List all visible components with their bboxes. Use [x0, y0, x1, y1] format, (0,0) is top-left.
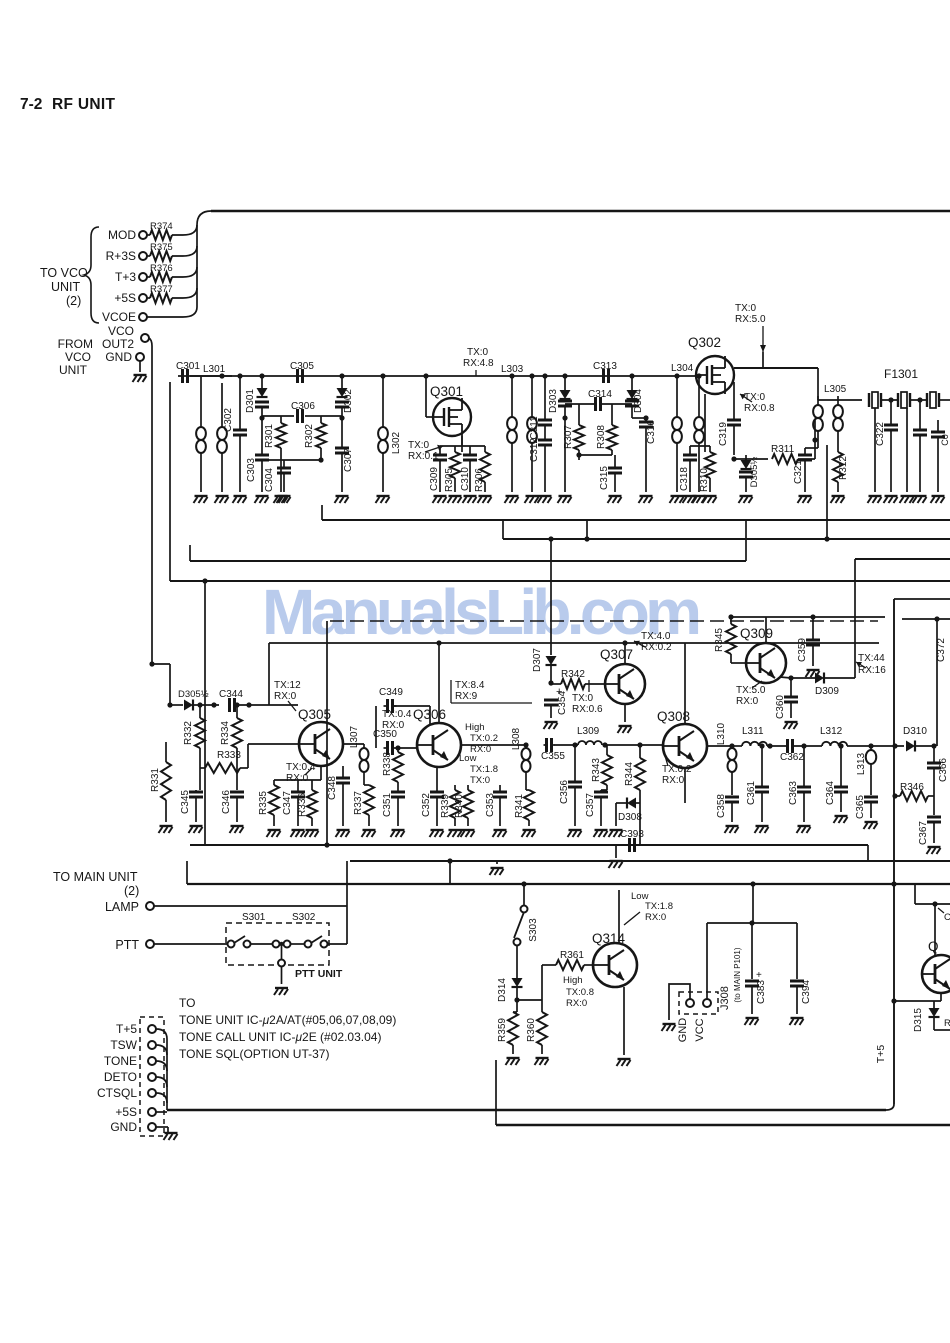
svg-text:OUT2: OUT2: [102, 337, 134, 351]
svg-text:C354: C354: [557, 691, 568, 715]
svg-text:C313: C313: [593, 361, 617, 372]
svg-text:Q301: Q301: [430, 384, 463, 399]
svg-text:R345: R345: [714, 628, 725, 652]
svg-text:C319: C319: [718, 422, 729, 446]
svg-text:R339: R339: [440, 794, 451, 818]
svg-text:TO MAIN UNIT: TO MAIN UNIT: [53, 870, 138, 884]
svg-text:C394: C394: [801, 980, 812, 1004]
svg-text:C366: C366: [938, 758, 949, 782]
svg-text:D305½: D305½: [749, 457, 760, 488]
svg-text:R308: R308: [596, 425, 607, 449]
svg-text:GND: GND: [677, 1018, 689, 1043]
svg-text:(2): (2): [124, 884, 139, 898]
svg-text:C352: C352: [421, 793, 432, 817]
svg-text:R302: R302: [304, 424, 315, 448]
svg-text:RX:0: RX:0: [645, 912, 666, 923]
svg-text:R310: R310: [699, 468, 710, 492]
svg-text:C311: C311: [529, 416, 540, 440]
svg-text:+5S: +5S: [114, 291, 136, 305]
svg-text:S303: S303: [528, 918, 539, 942]
svg-text:C347: C347: [282, 791, 293, 815]
svg-text:R376: R376: [150, 263, 173, 274]
svg-text:7-2: 7-2: [20, 96, 42, 113]
svg-text:C361: C361: [746, 781, 757, 805]
svg-text:Low: Low: [459, 753, 477, 764]
svg-text:C307: C307: [343, 448, 354, 472]
svg-text:R338: R338: [382, 752, 393, 776]
svg-text:S302: S302: [292, 912, 316, 923]
svg-text:R: R: [944, 1018, 950, 1029]
svg-text:TX:0: TX:0: [467, 347, 489, 358]
svg-text:PTT: PTT: [115, 938, 139, 952]
svg-text:+5S: +5S: [115, 1105, 137, 1119]
svg-text:L303: L303: [501, 364, 524, 375]
svg-text:TX:0: TX:0: [744, 392, 766, 403]
svg-text:R334: R334: [220, 721, 231, 745]
svg-text:D315: D315: [913, 1008, 924, 1032]
svg-text:C358: C358: [716, 794, 727, 818]
svg-text:RX:0.2: RX:0.2: [641, 642, 672, 653]
svg-text:High: High: [563, 975, 583, 986]
svg-text:C303: C303: [246, 458, 257, 482]
svg-text:R342: R342: [561, 669, 585, 680]
svg-text:VCO: VCO: [108, 324, 134, 338]
svg-text:C321: C321: [793, 460, 804, 484]
svg-text:C344: C344: [219, 689, 243, 700]
svg-text:MOD: MOD: [108, 228, 136, 242]
svg-text:R305: R305: [444, 468, 455, 492]
svg-text:C: C: [944, 912, 950, 923]
svg-text:TONE: TONE: [104, 1054, 137, 1068]
svg-text:C314: C314: [588, 389, 612, 400]
svg-text:RX:0: RX:0: [662, 775, 685, 786]
svg-text:L310: L310: [716, 722, 727, 745]
svg-text:C318: C318: [679, 467, 690, 491]
svg-text:Q306: Q306: [413, 707, 446, 722]
svg-text:R374: R374: [150, 221, 173, 232]
svg-text:C351: C351: [382, 793, 393, 817]
svg-text:C356: C356: [559, 780, 570, 804]
svg-text:R377: R377: [150, 284, 173, 295]
svg-text:TX:1.8: TX:1.8: [645, 901, 673, 912]
svg-text:F1301: F1301: [884, 367, 918, 381]
svg-text:Q305: Q305: [298, 707, 331, 722]
svg-text:R+3S: R+3S: [106, 249, 136, 263]
svg-text:D314: D314: [497, 978, 508, 1002]
svg-text:TX:44: TX:44: [858, 653, 885, 664]
svg-text:C348: C348: [327, 776, 338, 800]
svg-text:C372: C372: [936, 638, 947, 662]
svg-text:R331: R331: [150, 768, 161, 792]
svg-text:TX:4.0: TX:4.0: [641, 631, 671, 642]
svg-text:C0: C0: [940, 434, 950, 446]
svg-text:C355: C355: [541, 751, 565, 762]
svg-text:GND: GND: [110, 1120, 137, 1134]
svg-text:D307: D307: [532, 648, 543, 672]
svg-text:TX:0.4: TX:0.4: [382, 709, 412, 720]
svg-text:C345: C345: [180, 790, 191, 814]
svg-text:C383: C383: [756, 980, 767, 1004]
svg-text:L305: L305: [824, 384, 847, 395]
svg-text:LAMP: LAMP: [105, 900, 139, 914]
svg-text:TONE UNIT IC-μ2A/AT(#05,06,07: TONE UNIT IC-μ2A/AT(#05,06,07,08,09): [179, 1013, 396, 1027]
svg-text:D308: D308: [618, 812, 642, 823]
svg-text:TX:0.8: TX:0.8: [566, 987, 594, 998]
svg-text:RX:0: RX:0: [736, 696, 759, 707]
svg-text:R301: R301: [264, 424, 275, 448]
svg-text:C362: C362: [780, 752, 804, 763]
svg-text:TO VCO: TO VCO: [40, 266, 88, 280]
svg-text:R375: R375: [150, 242, 173, 253]
svg-text:RF UNIT: RF UNIT: [52, 96, 115, 113]
svg-text:TX:0: TX:0: [735, 303, 757, 314]
svg-text:RX:5.0: RX:5.0: [735, 314, 766, 325]
svg-text:L311: L311: [742, 726, 764, 737]
svg-text:TONE SQL(OPTION UT-37): TONE SQL(OPTION UT-37): [179, 1047, 329, 1061]
svg-text:D301: D301: [245, 389, 256, 413]
svg-text:D309: D309: [815, 686, 839, 697]
svg-text:VCOE: VCOE: [102, 310, 136, 324]
svg-text:PTT UNIT: PTT UNIT: [295, 968, 343, 980]
svg-text:R341: R341: [514, 794, 525, 818]
svg-text:High: High: [465, 722, 485, 733]
svg-text:R343: R343: [591, 758, 602, 782]
svg-text:R312: R312: [838, 456, 849, 480]
svg-text:TX:0: TX:0: [470, 775, 490, 786]
svg-text:C360: C360: [775, 695, 786, 719]
svg-text:TX:1.8: TX:1.8: [470, 764, 498, 775]
svg-text:D310: D310: [903, 726, 927, 737]
svg-text:TX:12: TX:12: [274, 680, 301, 691]
svg-text:C312: C312: [529, 438, 540, 462]
svg-text:R361: R361: [560, 950, 584, 961]
svg-text:R333: R333: [217, 750, 241, 761]
svg-text:DETO: DETO: [104, 1070, 137, 1084]
svg-text:TX:0.2: TX:0.2: [470, 733, 498, 744]
svg-text:C306: C306: [291, 401, 315, 412]
svg-text:TSW: TSW: [110, 1038, 137, 1052]
svg-text:TX:0: TX:0: [572, 693, 594, 704]
svg-text:D305½: D305½: [178, 689, 209, 700]
svg-text:R340: R340: [454, 794, 465, 818]
svg-text:C357: C357: [585, 793, 596, 817]
svg-text:S301: S301: [242, 912, 266, 923]
svg-text:+: +: [756, 970, 762, 981]
svg-text:R332: R332: [183, 721, 194, 745]
svg-text:R344: R344: [624, 762, 635, 786]
svg-text:R335: R335: [258, 791, 269, 815]
svg-text:TX:0: TX:0: [408, 440, 430, 451]
svg-text:L308: L308: [511, 727, 522, 750]
svg-text:T+5: T+5: [875, 1045, 887, 1064]
svg-text:R336: R336: [297, 793, 308, 817]
svg-text:C353: C353: [485, 793, 496, 817]
svg-text:C309: C309: [429, 467, 440, 491]
svg-text:C367: C367: [918, 821, 929, 845]
svg-text:Q307: Q307: [600, 647, 633, 662]
svg-text:C359: C359: [797, 638, 808, 662]
svg-text:RX:0: RX:0: [274, 691, 297, 702]
svg-text:R307: R307: [563, 425, 574, 449]
svg-text:VCO: VCO: [65, 350, 91, 364]
svg-text:C305: C305: [290, 361, 314, 372]
svg-text:(2): (2): [66, 294, 81, 308]
svg-text:TONE CALL UNIT IC-μ2E (#02.03: TONE CALL UNIT IC-μ2E (#02.03.04): [179, 1030, 381, 1044]
svg-text:R360: R360: [526, 1018, 537, 1042]
svg-text:VCC: VCC: [694, 1018, 706, 1041]
svg-text:C322: C322: [875, 422, 886, 446]
svg-text:C364: C364: [825, 781, 836, 805]
svg-text:L304: L304: [671, 363, 694, 374]
svg-text:C302: C302: [223, 408, 234, 432]
svg-text:C304: C304: [264, 468, 275, 492]
svg-text:L309: L309: [577, 726, 600, 737]
svg-text:CTSQL: CTSQL: [97, 1086, 137, 1100]
svg-text:RX:4.8: RX:4.8: [463, 358, 494, 369]
svg-text:RX:0.6: RX:0.6: [572, 704, 603, 715]
svg-text:R337: R337: [353, 791, 364, 815]
svg-text:C365: C365: [855, 795, 866, 819]
svg-text:R306: R306: [474, 468, 485, 492]
svg-text:C316: C316: [646, 420, 657, 444]
svg-text:RX:16: RX:16: [858, 665, 886, 676]
svg-text:Q302: Q302: [688, 335, 721, 350]
svg-text:GND: GND: [105, 350, 132, 364]
svg-text:C310: C310: [460, 467, 471, 491]
svg-text:C301: C301: [176, 361, 200, 372]
svg-text:C315: C315: [599, 466, 610, 490]
svg-text:UNIT: UNIT: [51, 280, 81, 294]
svg-text:Q309: Q309: [740, 626, 773, 641]
svg-text:T+3: T+3: [115, 270, 136, 284]
svg-text:C363: C363: [788, 781, 799, 805]
svg-text:UNIT: UNIT: [59, 363, 88, 377]
svg-text:J308: J308: [719, 986, 731, 1010]
svg-text:TX:5.0: TX:5.0: [736, 685, 766, 696]
svg-text:RX:0: RX:0: [566, 998, 587, 1009]
svg-text:RX:9: RX:9: [455, 691, 478, 702]
svg-text:FROM: FROM: [58, 337, 93, 351]
svg-text:L301: L301: [203, 364, 226, 375]
svg-text:TX:8.4: TX:8.4: [455, 680, 485, 691]
svg-text:RX:0.8: RX:0.8: [744, 403, 775, 414]
svg-text:C349: C349: [379, 687, 403, 698]
svg-text:C346: C346: [221, 790, 232, 814]
svg-text:L312: L312: [820, 726, 843, 737]
svg-text:L302: L302: [391, 431, 402, 454]
svg-text:(to MAIN P101): (to MAIN P101): [733, 947, 742, 1002]
svg-text:TX:0.4: TX:0.4: [286, 762, 316, 773]
svg-text:D303: D303: [548, 389, 559, 413]
svg-text:TO: TO: [179, 996, 195, 1010]
svg-text:R359: R359: [497, 1018, 508, 1042]
svg-text:Q: Q: [928, 939, 939, 954]
svg-text:T+5: T+5: [116, 1022, 137, 1036]
